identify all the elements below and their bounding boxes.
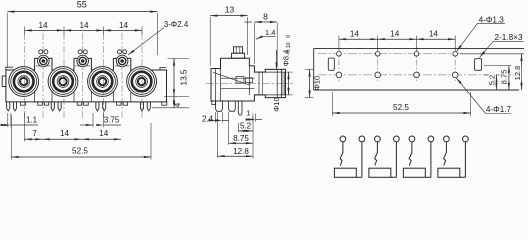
- svg-text:13: 13: [225, 4, 235, 14]
- svg-text:7: 7: [32, 129, 37, 138]
- svg-text:52.5: 52.5: [393, 103, 409, 112]
- svg-text:Φ10: Φ10: [313, 76, 322, 91]
- svg-text:14: 14: [60, 129, 70, 138]
- svg-text:8.75: 8.75: [233, 134, 249, 143]
- svg-text:14: 14: [350, 29, 360, 38]
- svg-text:52.5: 52.5: [72, 147, 88, 156]
- svg-text:Φ10: Φ10: [272, 97, 281, 112]
- svg-text:4-Φ1.7: 4-Φ1.7: [486, 105, 512, 114]
- svg-text:13.5: 13.5: [179, 69, 188, 85]
- svg-text:3.75: 3.75: [104, 115, 120, 124]
- svg-text:5.2: 5.2: [240, 122, 252, 131]
- svg-text:4-Φ1.3: 4-Φ1.3: [479, 15, 505, 24]
- svg-text:2-1.8×3: 2-1.8×3: [495, 33, 523, 42]
- svg-text:55: 55: [77, 0, 87, 10]
- svg-text:0: 0: [286, 35, 292, 38]
- svg-text:8.75: 8.75: [500, 70, 509, 85]
- svg-text:1.4: 1.4: [265, 28, 276, 37]
- svg-text:14: 14: [99, 129, 109, 138]
- svg-text:12.8: 12.8: [513, 66, 522, 81]
- svg-text:8: 8: [263, 12, 268, 22]
- svg-text:1.1: 1.1: [26, 115, 38, 124]
- svg-text:2.4: 2.4: [202, 115, 214, 124]
- svg-text:3-Φ2.4: 3-Φ2.4: [164, 20, 189, 29]
- svg-text:14: 14: [390, 29, 400, 38]
- svg-text:1: 1: [246, 109, 250, 118]
- svg-text:14: 14: [119, 21, 129, 30]
- svg-text:14: 14: [429, 29, 439, 38]
- svg-text:5.2: 5.2: [488, 75, 497, 86]
- svg-text:12.8: 12.8: [233, 147, 249, 156]
- svg-text:14: 14: [79, 21, 89, 30]
- svg-text:14: 14: [38, 21, 48, 30]
- svg-text:4: 4: [173, 102, 182, 107]
- svg-text:-0.10: -0.10: [286, 42, 292, 54]
